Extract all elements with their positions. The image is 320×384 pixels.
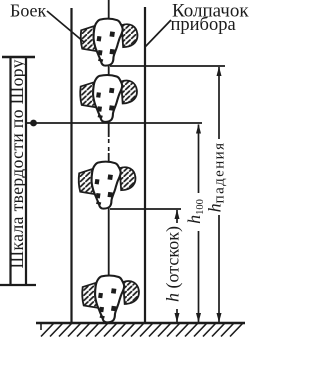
svg-text:Шкала твердости по Шору: Шкала твердости по Шору xyxy=(7,59,27,268)
svg-text:Боек: Боек xyxy=(10,1,47,21)
svg-text:h100: h100 xyxy=(184,199,206,224)
svg-text:hпадения: hпадения xyxy=(205,142,228,213)
svg-text:h (отскок): h (отскок) xyxy=(163,226,184,302)
svg-text:прибора: прибора xyxy=(171,15,236,35)
